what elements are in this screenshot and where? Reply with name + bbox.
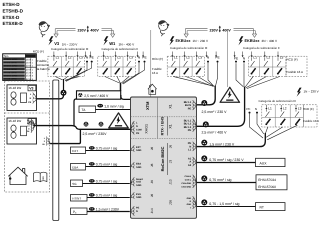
- svg-text:GND: GND: [136, 196, 142, 199]
- wire V3 to heater: [36, 93, 63, 99]
- svg-text:2,5 mm² / 400 V: 2,5 mm² / 400 V: [202, 131, 228, 135]
- wire EXT: [86, 150, 130, 152]
- svg-text:230V: 230V: [210, 28, 219, 32]
- svg-text:Tipo: Tipo: [4, 55, 9, 58]
- box RT: [256, 203, 286, 211]
- fusible note: [37, 59, 50, 71]
- wire TA: [96, 109, 131, 111]
- warning triangle left: [109, 113, 129, 128]
- dashed enclosure heater unit: [5, 81, 50, 192]
- svg-text:GND: GND: [187, 203, 192, 206]
- terminal strip W1: [98, 52, 148, 77]
- wire RT: [197, 206, 256, 208]
- wire W1 to console top: [121, 95, 131, 99]
- svg-text:RT: RT: [260, 206, 264, 210]
- consult-manual icon right: [158, 20, 169, 36]
- svg-text:2,5 mm² / 230V: 2,5 mm² / 230V: [83, 132, 108, 136]
- svg-text:PE: PE: [188, 108, 192, 111]
- cable duct: [53, 80, 59, 221]
- svg-text:L3: L3: [298, 107, 302, 111]
- cable marker J6: [201, 140, 207, 146]
- svg-text:J16: J16: [169, 200, 173, 205]
- svg-text:Categoría de sobretensión III: Categoría de sobretensión III: [170, 46, 207, 50]
- svg-text:W1: W1: [109, 41, 116, 46]
- svg-text:L1: L1: [268, 107, 272, 111]
- svg-text:1: 1: [44, 137, 45, 140]
- svg-text:Categoría de sobretensión II: Categoría de sobretensión II: [102, 47, 139, 51]
- svg-text:1,5 mm² / 230V: 1,5 mm² / 230V: [96, 208, 120, 212]
- external box EBA: [71, 164, 86, 171]
- svg-text:A2: A2: [188, 164, 192, 167]
- cable marker X1-400: [203, 121, 209, 127]
- svg-text:RTX- / EHS: RTX- / EHS: [161, 116, 165, 135]
- svg-text:HT/NT: HT/NT: [72, 197, 81, 201]
- wire S-group: [50, 130, 80, 144]
- svg-text:J13: J13: [169, 179, 173, 184]
- svg-text:L1: L1: [27, 119, 29, 122]
- svg-text:16-18 kW: 16-18 kW: [8, 119, 21, 123]
- console box RoCon: [131, 97, 197, 218]
- svg-text:Categoría de sobretensión III: Categoría de sobretensión III: [51, 47, 88, 51]
- svg-text:J8: J8: [150, 163, 154, 167]
- svg-text:CAN-GND: CAN-GND: [181, 185, 191, 188]
- svg-text:PE: PE: [246, 107, 250, 111]
- wire HT/NT: [87, 197, 130, 199]
- cable label SG: [89, 179, 95, 183]
- svg-text:0,75 mm² / sig: 0,75 mm² / sig: [96, 194, 118, 198]
- svg-text:J14: J14: [150, 208, 154, 213]
- svg-text:L3: L3: [198, 55, 202, 59]
- fuse table: [3, 54, 37, 81]
- cable label PE: [89, 207, 95, 211]
- svg-text:GND: GND: [187, 197, 192, 200]
- svg-text:RoCon BM2C: RoCon BM2C: [160, 146, 165, 171]
- wire AUX: [197, 162, 256, 164]
- wire W1 heater: [33, 126, 130, 130]
- svg-text:RCD (F): RCD (F): [152, 57, 163, 61]
- cable label box 400V: [77, 91, 121, 99]
- svg-text:ETSXB 16P50: ETSXB 16P50: [4, 78, 18, 81]
- svg-text:L3: L3: [27, 125, 29, 128]
- svg-text:L2: L2: [186, 55, 190, 59]
- svg-text:EXT: EXT: [72, 149, 78, 153]
- svg-text:GND: GND: [136, 184, 142, 187]
- svg-text:0,75 mm² / sig: 0,75 mm² / sig: [209, 178, 231, 182]
- wires supply converge: [250, 114, 298, 140]
- svg-text:EBA: EBA: [72, 166, 78, 170]
- wire EHS: [197, 182, 256, 184]
- svg-text:L2: L2: [283, 107, 287, 111]
- external box SG: [71, 180, 83, 187]
- house icon bottom: [8, 167, 27, 184]
- svg-text:ETSXB-D: ETSXB-D: [3, 21, 24, 26]
- svg-text:L2: L2: [27, 122, 29, 125]
- svg-text:?: ?: [166, 24, 169, 30]
- svg-text:CAN-H: CAN-H: [184, 175, 191, 178]
- svg-text:EHS157034: EHS157034: [258, 178, 276, 182]
- wire W1 cable down: [74, 99, 77, 126]
- hook arrow to V3: [54, 29, 76, 38]
- svg-text:L1: L1: [56, 55, 60, 59]
- header EKBU 400: [238, 36, 243, 45]
- cable marker X1-230: [201, 100, 207, 106]
- hook arrow to W1: [102, 29, 115, 38]
- svg-text:32 A: 32 A: [26, 78, 31, 81]
- svg-text:XAG1: XAG1: [145, 124, 149, 134]
- wire EBA: [86, 166, 130, 168]
- svg-text:CAN-GND: CAN-GND: [181, 182, 191, 185]
- dashed divider enclosure: [5, 112, 50, 114]
- voltage selector right: [210, 28, 232, 32]
- heater box V3: [7, 85, 37, 111]
- svg-text:AUX: AUX: [260, 162, 268, 166]
- svg-text:L2: L2: [267, 55, 271, 59]
- heater box W1: [7, 118, 37, 144]
- svg-text:N: N: [136, 210, 138, 213]
- svg-text:20 A: 20 A: [26, 65, 31, 68]
- wires W1 converge: [105, 63, 145, 84]
- terminal strip EKBU400: [234, 52, 236, 56]
- box AUX: [256, 158, 286, 166]
- svg-text:2: 2: [44, 140, 45, 143]
- svg-text:L2: L2: [68, 55, 72, 59]
- svg-text:V3: V3: [29, 87, 33, 91]
- svg-text:GND: GND: [136, 166, 142, 169]
- svg-text:CAN-L: CAN-L: [185, 179, 192, 182]
- separator line left/mid: [150, 30, 152, 97]
- svg-text:400V: 400V: [222, 28, 231, 32]
- hook arrow to EKBU400: [234, 29, 257, 38]
- svg-text:Categoría de sobretensión II: Categoría de sobretensión II: [243, 46, 280, 50]
- svg-text:SG: SG: [72, 182, 77, 186]
- svg-text:L1: L1: [174, 55, 178, 59]
- svg-text:J8: J8: [150, 147, 154, 151]
- voltage selector left: [78, 28, 100, 32]
- header V3: [48, 36, 53, 45]
- svg-text:V3: V3: [54, 41, 60, 46]
- svg-text:RCD (F): RCD (F): [33, 49, 44, 53]
- cable label 1,0mm: [97, 104, 103, 108]
- wire EKBU230 to X1: [197, 86, 215, 105]
- svg-text:GND: GND: [136, 149, 142, 152]
- svg-text:PE: PE: [188, 129, 192, 132]
- cable label EXT: [89, 146, 95, 150]
- svg-text:EKBUxx: EKBUxx: [245, 39, 261, 43]
- svg-text:0,75 mm² / sig: 0,75 mm² / sig: [96, 180, 118, 184]
- svg-text:3N ~ 400 V: 3N ~ 400 V: [119, 42, 136, 46]
- svg-text:1N ~ 230 V: 1N ~ 230 V: [304, 90, 319, 94]
- external box PE: [71, 208, 88, 215]
- svg-text:ETSH-D: ETSH-D: [3, 2, 21, 7]
- svg-text:ETSX-D: ETSX-D: [3, 15, 21, 20]
- svg-text:J8: J8: [150, 194, 154, 198]
- terminal strip EKBU230: [167, 52, 220, 77]
- svg-text:16 A: 16 A: [152, 71, 158, 75]
- svg-text:2,5 mm² / 400 V: 2,5 mm² / 400 V: [84, 94, 109, 98]
- svg-text:0,75 mm² / sig: 0,75 mm² / sig: [96, 147, 118, 151]
- wire V3 bundle: [63, 79, 65, 93]
- svg-text:RCD (F): RCD (F): [287, 58, 298, 62]
- header supply 230: [297, 88, 302, 97]
- svg-text:1,0 mm² / sig: 1,0 mm² / sig: [104, 105, 124, 109]
- svg-text:ETSH/X 16P30: ETSH/X 16P30: [4, 58, 18, 61]
- cable marker heater cable A: [84, 122, 89, 127]
- wires EKBU230 converge: [174, 63, 218, 87]
- svg-text:ETSXB 16P30: ETSXB 16P30: [4, 71, 18, 74]
- svg-text:XTM: XTM: [145, 101, 150, 110]
- svg-text:EHS157068: EHS157068: [258, 185, 276, 189]
- svg-text:1N ~ 230 V: 1N ~ 230 V: [193, 39, 210, 43]
- svg-text:0,75 mm² / sig / 230 V: 0,75 mm² / sig / 230 V: [209, 158, 244, 162]
- external box HT/NT: [71, 195, 88, 202]
- svg-text:1,5 mm² / 230 V: 1,5 mm² / 230 V: [209, 142, 235, 146]
- svg-text:ETSHB-D: ETSHB-D: [3, 8, 24, 13]
- svg-text:ETSH/X 16P50: ETSH/X 16P50: [4, 65, 18, 68]
- cable label HT/NT: [89, 193, 95, 197]
- console dashed divider XTM/XAG1: [131, 116, 197, 118]
- svg-text:1N ~ 230 V: 1N ~ 230 V: [62, 42, 79, 46]
- svg-text:J6: J6: [169, 145, 173, 149]
- svg-text:ETSH/X 16P58: ETSH/X 16P58: [4, 75, 18, 78]
- svg-text:?: ?: [47, 25, 50, 31]
- svg-text:Categoría de sobretensión III: Categoría de sobretensión III: [259, 99, 296, 103]
- svg-text:0,75 - 1,5 mm² / sig: 0,75 - 1,5 mm² / sig: [209, 202, 239, 206]
- svg-text:230V: 230V: [78, 28, 87, 32]
- book icon: [34, 172, 47, 181]
- svg-text:L2: L2: [117, 55, 121, 59]
- svg-text:L3: L3: [129, 55, 133, 59]
- svg-text:N: N: [255, 107, 257, 111]
- external box EXT: [71, 147, 86, 154]
- TA sensor box: [79, 106, 96, 113]
- svg-text:0,75 mm² / sig: 0,75 mm² / sig: [96, 163, 118, 167]
- cable marker V3: [61, 90, 67, 96]
- svg-text:L3: L3: [280, 55, 284, 59]
- svg-text:X1: X1: [169, 104, 173, 109]
- terminal strip supply: [262, 105, 319, 127]
- svg-text:ETSHB 16P50: ETSHB 16P50: [4, 68, 18, 71]
- wires EKBU400 converge: [236, 63, 279, 88]
- header W1: [103, 36, 108, 45]
- svg-text:PE: PE: [136, 132, 140, 135]
- console dashed divider mid: [131, 138, 197, 140]
- svg-text:L3: L3: [79, 55, 83, 59]
- svg-text:EKBUxx: EKBUxx: [176, 39, 192, 43]
- svg-text:Fusible 16 A: Fusible 16 A: [303, 119, 319, 123]
- wire EKBU400 to X1: [197, 87, 245, 127]
- svg-text:2,5 mm² / 230 V: 2,5 mm² / 230 V: [202, 110, 228, 114]
- box EHS157034 EHS157068: [256, 175, 287, 190]
- header EKBU 230: [169, 36, 174, 45]
- svg-text:J8: J8: [150, 180, 154, 184]
- svg-text:RCD (F): RCD (F): [303, 107, 314, 111]
- wires V3 converge: [55, 63, 91, 82]
- model list ETSH: [3, 2, 24, 26]
- hook arrow to EKBU230: [184, 29, 207, 38]
- svg-text:L1: L1: [253, 55, 257, 59]
- consult-manual icon left: [39, 21, 50, 37]
- warning triangle right: [220, 87, 240, 102]
- svg-text:L1: L1: [105, 55, 109, 59]
- separator line mid/right: [227, 30, 229, 87]
- svg-text:400V: 400V: [90, 28, 99, 32]
- wire PE: [87, 211, 130, 213]
- console divider vertical: [157, 97, 159, 139]
- svg-text:ETSHB 16P30: ETSHB 16P30: [4, 61, 18, 64]
- wire W1 bundle: [120, 83, 122, 91]
- svg-text:J3: J3: [169, 160, 173, 164]
- svg-text:3N ~ 400 V: 3N ~ 400 V: [262, 39, 279, 43]
- svg-text:Fusible 16 A: Fusible 16 A: [287, 70, 304, 74]
- terminal strip V3: [48, 52, 95, 77]
- cable label EBA: [89, 162, 95, 166]
- wire supply to J6: [197, 133, 265, 147]
- svg-text:16-18 kW: 16-18 kW: [8, 86, 21, 90]
- svg-text:X1: X1: [169, 124, 173, 129]
- house icon top: [148, 84, 157, 94]
- cable marker heater cable B: [99, 122, 104, 127]
- wire SG: [83, 183, 130, 185]
